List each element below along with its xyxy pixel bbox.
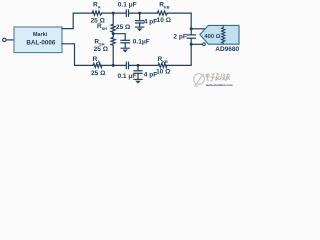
svg-text:www.elecfans.com: www.elecfans.com [205,83,233,87]
svg-text:25 Ω: 25 Ω [94,46,108,53]
svg-text:10 Ω: 10 Ω [156,68,170,75]
svg-text:AD9680: AD9680 [215,46,239,53]
svg-text:SH: SH [102,26,108,31]
svg-text:25 Ω: 25 Ω [116,24,130,31]
svg-text:A: A [97,59,100,64]
svg-text:25 Ω: 25 Ω [91,70,105,77]
svg-text:Marki: Marki [33,32,48,38]
svg-text:0.1 μF: 0.1 μF [118,73,137,80]
svg-text:4 pF: 4 pF [144,19,157,26]
svg-text:10 Ω: 10 Ω [157,17,171,24]
svg-text:2 pF: 2 pF [173,33,186,40]
svg-text:400 Ω: 400 Ω [204,34,220,40]
svg-text:KB: KB [164,4,170,9]
svg-text:0.1μF: 0.1μF [133,39,150,46]
svg-text:A: A [98,5,101,10]
svg-text:0.1 μF: 0.1 μF [118,1,137,8]
svg-text:KB: KB [162,59,168,64]
svg-text:BAL-0006: BAL-0006 [26,40,56,47]
